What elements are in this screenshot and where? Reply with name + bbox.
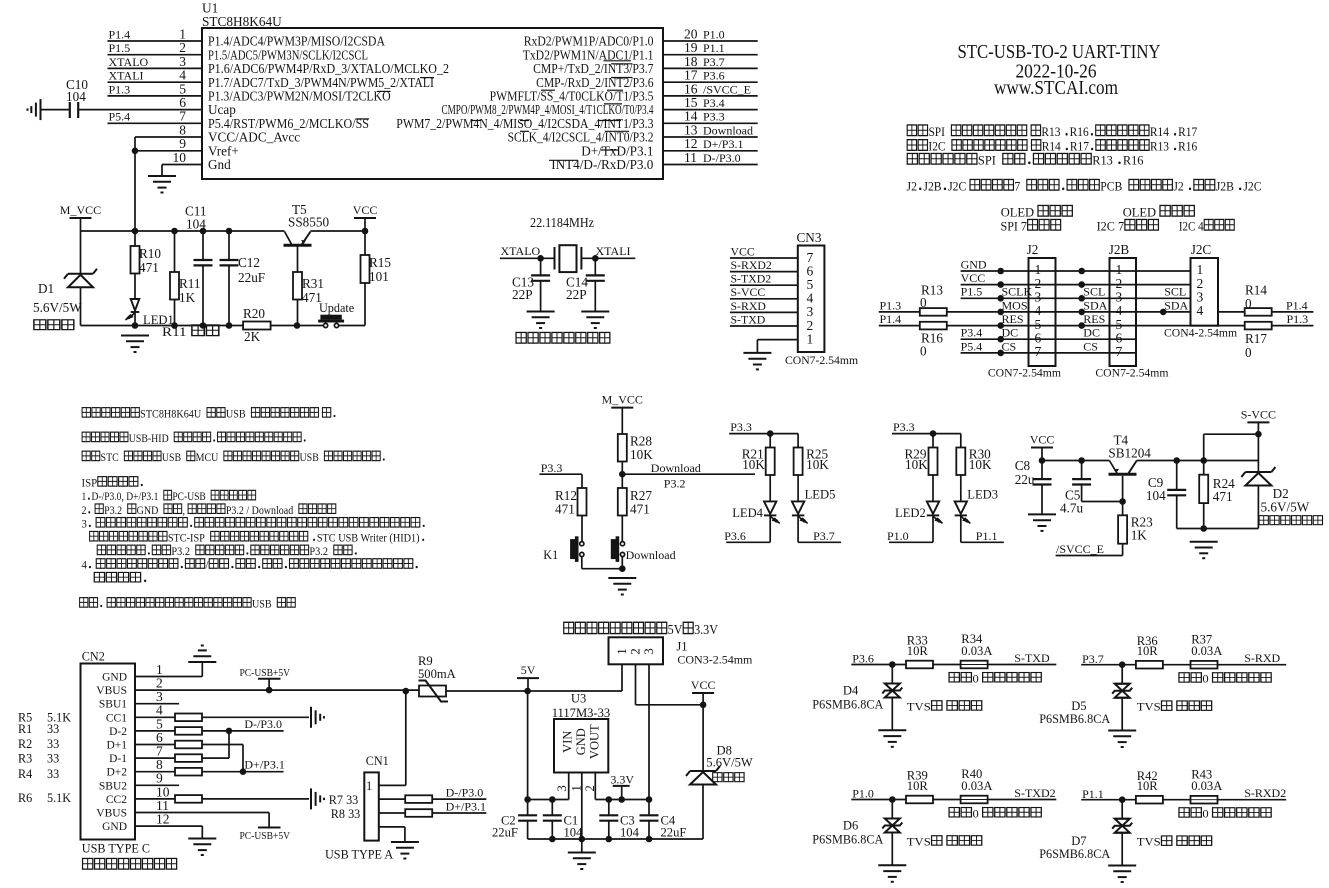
wire P3.6	[851, 664, 906, 666]
svg-text:PC-USB+5V: PC-USB+5V	[240, 830, 291, 842]
wire U1 pin 20	[663, 40, 758, 42]
svg-text:U3: U3	[571, 691, 586, 705]
svg-text:S-VCC: S-VCC	[1241, 407, 1276, 421]
power PC-USB+5V bottom	[258, 827, 281, 829]
svg-text:P1.1: P1.1	[703, 41, 725, 55]
svg-text:1K: 1K	[1131, 528, 1148, 543]
svg-text:P6SMB6.8CA: P6SMB6.8CA	[812, 698, 883, 712]
svg-text:J2C: J2C	[1191, 242, 1212, 257]
svg-text:CMP+/TxD_2/INT3/P3.7: CMP+/TxD_2/INT3/P3.7	[533, 61, 654, 76]
ground download	[608, 578, 636, 595]
pushbutton K1	[570, 536, 584, 562]
svg-text:10K: 10K	[969, 457, 992, 472]
svg-text:3: 3	[82, 518, 88, 530]
svg-text:J2B: J2B	[1216, 179, 1234, 194]
wire D-2 + resistor R1	[135, 730, 284, 732]
svg-text:1117M3-33: 1117M3-33	[552, 706, 611, 720]
wire J2 pin 2	[961, 284, 1191, 286]
junction J2 pin 2	[997, 281, 1004, 288]
wire T4 collector	[1137, 460, 1259, 462]
svg-text:3.3V: 3.3V	[694, 621, 718, 637]
resistor R27	[621, 474, 623, 488]
svg-text:D-/P3.0: D-/P3.0	[244, 717, 282, 731]
wire CC2 + resistor R6	[135, 798, 309, 800]
svg-text:VCC/ADC_Avcc: VCC/ADC_Avcc	[208, 130, 300, 145]
svg-text:CS: CS	[1002, 339, 1017, 353]
wire LED down	[932, 516, 934, 542]
capacitor C1	[551, 800, 553, 816]
note TVS	[907, 700, 982, 713]
svg-text:R14: R14	[1042, 139, 1061, 154]
wire P1.1	[1081, 799, 1136, 801]
wire VCC segment	[311, 230, 366, 232]
wire LED down	[797, 516, 799, 542]
svg-text:STC8H8K64U: STC8H8K64U	[140, 408, 201, 421]
svg-text:SBU1: SBU1	[99, 699, 127, 711]
svg-text:,: ,	[182, 504, 185, 517]
svg-text:SDA: SDA	[1083, 298, 1107, 312]
svg-text:GND: GND	[102, 821, 127, 833]
ground D6	[878, 865, 906, 882]
wire U1 pin 16	[663, 95, 758, 97]
wire CN1 pin1	[405, 691, 407, 785]
pushbutton Download	[611, 536, 625, 562]
svg-text:USB: USB	[226, 408, 246, 421]
svg-text:104: 104	[1146, 488, 1166, 503]
svg-text:TVS: TVS	[907, 700, 931, 713]
wire U1 pin 12	[663, 150, 758, 152]
svg-text:R11: R11	[162, 325, 187, 340]
wire P3.3 to R12	[539, 473, 582, 475]
wire right branch	[960, 434, 962, 448]
note I2C	[907, 139, 1197, 154]
ground C13	[527, 312, 555, 329]
svg-text:0: 0	[920, 344, 927, 359]
label SPI if	[1001, 219, 1061, 234]
svg-text:P3.7: P3.7	[813, 529, 835, 543]
note J2	[907, 179, 1262, 194]
junction C1 node	[549, 796, 556, 803]
svg-text:R20: R20	[243, 306, 265, 321]
note TVS	[907, 835, 982, 848]
svg-text:RES: RES	[1002, 312, 1024, 326]
note 0ohm	[949, 672, 1041, 685]
wire CN3 pin 2	[730, 325, 798, 327]
wire U1 pin 13	[663, 136, 758, 138]
ground CN3	[743, 353, 771, 370]
pushbutton Update	[318, 315, 344, 328]
svg-text:33: 33	[47, 722, 59, 736]
LED3	[955, 501, 967, 515]
svg-text:XTALI: XTALI	[596, 244, 631, 258]
zener D8	[702, 705, 704, 771]
resistor R29	[929, 448, 938, 476]
svg-text:D4: D4	[843, 684, 859, 698]
svg-text:P3.2: P3.2	[104, 504, 122, 517]
junction D4	[889, 661, 896, 668]
svg-text:CON4-2.54mm: CON4-2.54mm	[1164, 327, 1237, 340]
resistor R12	[578, 488, 587, 516]
junction PC-USB+5V	[266, 687, 273, 694]
wire VBUS2 down	[135, 812, 269, 814]
svg-text:J2C: J2C	[948, 179, 966, 194]
svg-text:R17: R17	[1245, 331, 1267, 346]
wire CC1 + resistor R5	[135, 716, 309, 718]
junction 3.3V	[618, 796, 625, 803]
svg-text:5.6V/5W: 5.6V/5W	[706, 756, 753, 770]
wire J1 pin3 down	[648, 664, 650, 799]
power PC-USB+5V top	[258, 678, 281, 680]
svg-text:P3.7: P3.7	[703, 55, 725, 69]
svg-text:471: 471	[555, 502, 575, 517]
ISP instruction text block	[82, 408, 335, 421]
svg-text:PC-USB: PC-USB	[172, 491, 205, 503]
junction rail	[606, 836, 613, 843]
wire Download net	[622, 473, 755, 475]
LED4	[764, 501, 776, 515]
wire U1 pin 3	[108, 67, 203, 69]
junction XTALI	[592, 255, 599, 262]
junction D-	[226, 728, 233, 735]
svg-text:P5.4: P5.4	[109, 110, 131, 124]
connector CN3	[798, 246, 825, 353]
label OLED SPI	[1001, 205, 1073, 219]
regulator U3 1117M3-33	[554, 719, 608, 773]
svg-text:R3: R3	[18, 752, 32, 766]
svg-text:K1: K1	[543, 548, 558, 562]
svg-text:VCC: VCC	[691, 678, 716, 692]
junction J2 pin 1	[997, 268, 1004, 275]
wire to P3.6	[726, 541, 770, 543]
ground D5	[1108, 731, 1136, 748]
svg-text:10K: 10K	[630, 447, 653, 462]
svg-text:471: 471	[139, 260, 159, 275]
svg-text:XTALI: XTALI	[109, 69, 144, 83]
svg-text:104: 104	[564, 826, 584, 840]
svg-text:2K: 2K	[244, 329, 261, 344]
resistor R39	[906, 796, 933, 804]
junction J2 pin 6	[997, 336, 1004, 343]
junction SDA	[1160, 309, 1167, 316]
capacitor C8	[1041, 461, 1043, 480]
junction J2B pin 1	[1078, 268, 1085, 275]
svg-text:GND: GND	[137, 504, 159, 517]
svg-text:104: 104	[66, 89, 86, 104]
svg-text:GND: GND	[574, 728, 588, 755]
svg-text:Download: Download	[651, 461, 701, 475]
wire J2 pin 1	[961, 270, 1191, 272]
junction	[930, 430, 937, 437]
svg-text:0.03A: 0.03A	[961, 644, 992, 658]
resistor R16	[920, 322, 947, 330]
svg-text:P3.6: P3.6	[703, 69, 725, 83]
capacitor C3	[608, 800, 610, 816]
junction bottom x=135	[132, 322, 139, 329]
wire D+1 + resistor R2	[135, 744, 243, 746]
svg-text:CC2: CC2	[106, 794, 127, 806]
svg-text:3: 3	[179, 54, 186, 69]
wire U1 pin 17	[663, 81, 758, 83]
wire J2 pin 5	[947, 325, 1245, 327]
junction 5V	[524, 688, 531, 695]
svg-text:104: 104	[186, 217, 206, 232]
svg-text:P1.3: P1.3	[109, 82, 131, 96]
junction C9	[1173, 457, 1180, 464]
svg-text:J1: J1	[676, 639, 687, 653]
svg-text:VBUS: VBUS	[96, 685, 127, 697]
svg-text:D-2: D-2	[109, 726, 127, 738]
svg-text:TVS: TVS	[1137, 700, 1161, 713]
svg-text:33: 33	[47, 767, 59, 781]
svg-text:1: 1	[82, 491, 87, 503]
wire mid	[933, 664, 960, 666]
junction CN1 branch	[403, 688, 410, 695]
svg-text:P3.2: P3.2	[309, 545, 328, 558]
LED2	[927, 501, 939, 515]
svg-text:33: 33	[47, 752, 59, 766]
connector CN2	[81, 664, 136, 840]
svg-text:I2C: I2C	[928, 139, 945, 154]
svg-text:10R: 10R	[907, 644, 929, 658]
ground U3	[568, 853, 596, 870]
svg-text:P6SMB6.8CA: P6SMB6.8CA	[1039, 847, 1110, 861]
svg-text:10K: 10K	[905, 457, 928, 472]
svg-text:3: 3	[641, 648, 656, 655]
wire mid	[1163, 664, 1190, 666]
svg-text:500mA: 500mA	[418, 667, 456, 681]
svg-text:J2: J2	[907, 179, 917, 194]
wire M_VCC down	[621, 408, 623, 434]
svg-text:P3.2: P3.2	[664, 477, 686, 491]
svg-text:R31: R31	[302, 276, 324, 291]
wire CN3 pin 5	[730, 284, 798, 286]
svg-text:R17: R17	[1070, 139, 1089, 154]
junction J2B pin 4	[1078, 309, 1085, 316]
svg-text:R14: R14	[1150, 124, 1169, 139]
svg-text:I2C 7: I2C 7	[1097, 219, 1125, 233]
svg-text:5V: 5V	[668, 621, 683, 637]
power 3.3V	[613, 785, 630, 787]
svg-text:471: 471	[1213, 489, 1233, 504]
connector J2B	[1110, 258, 1137, 366]
fuse R40	[961, 796, 988, 804]
resistor R36	[1136, 661, 1163, 669]
svg-text:CON3-2.54mm: CON3-2.54mm	[677, 653, 753, 667]
svg-text:SCLK: SCLK	[1002, 285, 1033, 299]
svg-text:R13: R13	[1092, 153, 1113, 167]
svg-text:CON7-2.54mm: CON7-2.54mm	[988, 367, 1061, 380]
resistor R33	[906, 661, 933, 669]
wire CN3 pin1 to ground	[757, 339, 797, 341]
svg-text:P1.0: P1.0	[887, 529, 909, 543]
ground T4 section	[1190, 542, 1218, 559]
note 0ohm	[949, 807, 1041, 820]
svg-text:P3.4: P3.4	[961, 326, 983, 340]
connector J2C	[1191, 258, 1219, 326]
svg-text:R13: R13	[1150, 139, 1169, 154]
junction rail	[646, 836, 653, 843]
svg-text:0: 0	[1202, 672, 1208, 685]
svg-text:CN2: CN2	[82, 650, 105, 664]
wire U1 pin 2	[108, 54, 203, 56]
svg-text:STC8H8K64U: STC8H8K64U	[202, 14, 282, 29]
capacitor C10	[41, 109, 70, 111]
ground LED1	[121, 336, 149, 353]
svg-text:USB: USB	[300, 451, 319, 464]
svg-text:RES: RES	[1083, 312, 1105, 326]
svg-text:D+/P3.1: D+/P3.1	[244, 758, 284, 772]
svg-text:D-/P3.0, D+/P3.1: D-/P3.0, D+/P3.1	[92, 491, 159, 503]
junction C3	[606, 796, 613, 803]
ground D4	[878, 730, 906, 747]
svg-text:XTALO: XTALO	[109, 55, 149, 69]
note TVS	[1137, 835, 1212, 848]
svg-text:0.03A: 0.03A	[1191, 779, 1222, 793]
svg-text:D6: D6	[843, 819, 858, 833]
wire S-VCC to R24	[1204, 433, 1259, 435]
svg-text:0: 0	[1202, 807, 1208, 820]
resistor R28	[618, 434, 627, 462]
wire K1 to gnd node	[582, 568, 623, 570]
junction rail x=174	[171, 228, 178, 235]
wire 5V rail to J1 pin1	[528, 690, 622, 692]
svg-text:D+2: D+2	[107, 767, 128, 779]
label I2C4	[1179, 219, 1234, 234]
svg-text:MCU: MCU	[196, 451, 219, 464]
capacitor C12	[228, 231, 230, 260]
resistor R25	[794, 448, 803, 476]
svg-text:J2: J2	[1173, 179, 1183, 194]
wire CN3 pin 4	[730, 298, 798, 300]
svg-text:D-/P3.0: D-/P3.0	[703, 151, 741, 165]
svg-text:S-TXD2: S-TXD2	[1014, 786, 1055, 800]
svg-text:R9: R9	[418, 654, 433, 668]
wire S-RXD	[1218, 664, 1287, 666]
wire right branch	[797, 434, 799, 448]
svg-text:SPI: SPI	[978, 153, 996, 167]
svg-text:22uF: 22uF	[492, 826, 518, 840]
svg-text:ISP: ISP	[82, 477, 98, 489]
power VCC T4	[1031, 447, 1053, 449]
svg-text:D5: D5	[1071, 699, 1086, 713]
TVS diode D6	[891, 800, 893, 819]
wire U1 pin 11	[663, 164, 758, 166]
note CN2	[83, 858, 177, 869]
svg-text:P3.2 / Download: P3.2 / Download	[226, 504, 294, 517]
svg-text:R2: R2	[18, 737, 32, 751]
junction C8	[1039, 457, 1046, 464]
svg-text:P3.3: P3.3	[730, 420, 752, 434]
wire D-1 + resistor R3	[135, 757, 229, 759]
svg-text:101: 101	[369, 269, 389, 284]
power 5V	[517, 677, 539, 679]
junction J2 pin 4	[997, 309, 1004, 316]
svg-text:I2C 4: I2C 4	[1179, 219, 1204, 234]
svg-text:P1.5: P1.5	[109, 41, 131, 55]
svg-text:S-RXD2: S-RXD2	[1244, 786, 1286, 800]
junction	[767, 430, 774, 437]
svg-text:VCC: VCC	[353, 203, 378, 217]
svg-text:P3.4: P3.4	[703, 96, 725, 110]
svg-text:471: 471	[630, 502, 650, 517]
svg-text:VBUS: VBUS	[96, 808, 127, 820]
svg-text:R7 33: R7 33	[329, 793, 358, 807]
svg-text:Download: Download	[626, 548, 676, 562]
wire J2 pin 3	[961, 297, 1191, 299]
svg-text:LED4: LED4	[732, 506, 763, 520]
junction J2B pin 3	[1078, 295, 1085, 302]
power VCC	[354, 217, 376, 219]
svg-text:R16: R16	[1070, 124, 1089, 139]
junction S-VCC	[1255, 431, 1262, 438]
wire CN2 pin1 gnd	[135, 676, 202, 678]
wire P3.7	[1081, 664, 1136, 666]
svg-text:USB TYPE A: USB TYPE A	[325, 848, 393, 862]
fuse R34	[961, 661, 988, 669]
svg-text:CON7-2.54mm: CON7-2.54mm	[1095, 367, 1168, 380]
wire to P1.0	[889, 541, 933, 543]
svg-text:J2B: J2B	[1109, 242, 1130, 257]
wire LED down	[769, 516, 771, 542]
svg-text:TVS: TVS	[1137, 835, 1161, 848]
resistor R17	[1245, 322, 1272, 330]
note R11	[162, 325, 219, 340]
wire J2 pin 6	[961, 338, 1136, 340]
svg-text:P1.6/ADC6/PWM4P/RxD_3/XTALO/MC: P1.6/ADC6/PWM4P/RxD_3/XTALO/MCLKO_2	[208, 61, 449, 76]
svg-text:0: 0	[920, 295, 927, 310]
LED1	[131, 299, 140, 312]
svg-text:MOS: MOS	[1002, 298, 1028, 312]
resistor R21	[766, 448, 775, 476]
svg-text:PCB: PCB	[1100, 179, 1122, 194]
junction J2 pin 5	[997, 322, 1004, 329]
capacitor C2	[518, 815, 537, 820]
wire P1.3 right	[1272, 325, 1314, 327]
svg-text:R15: R15	[369, 255, 391, 270]
svg-text:R11: R11	[179, 276, 201, 291]
label OLED I2C	[1123, 205, 1195, 219]
svg-text:CS: CS	[1083, 339, 1098, 353]
svg-text:Update: Update	[319, 301, 354, 315]
wire bottom T4 section	[1177, 528, 1259, 530]
zener D1	[80, 231, 82, 274]
capacitor C14	[594, 258, 596, 275]
svg-text:J2: J2	[1027, 242, 1039, 257]
wire VCC to T4	[1042, 460, 1109, 462]
wire U1 pin 6	[78, 109, 202, 111]
wire CN3 pin 3	[730, 311, 798, 313]
svg-text:D-/P3.0: D-/P3.0	[446, 786, 484, 800]
svg-text:USB TYPE C: USB TYPE C	[82, 842, 150, 856]
ground D7	[1108, 866, 1136, 883]
svg-text:P3.7: P3.7	[1082, 652, 1104, 666]
power VCC J1	[692, 692, 714, 694]
svg-text:0.03A: 0.03A	[961, 779, 992, 793]
junction bottom x=174	[171, 322, 178, 329]
wire U3 VOUT	[594, 773, 596, 800]
svg-text:S-VCC: S-VCC	[731, 285, 766, 299]
svg-text:J2C: J2C	[1243, 179, 1261, 194]
note default	[907, 153, 1143, 167]
svg-text:P3.3: P3.3	[703, 110, 725, 124]
svg-text:P1.3: P1.3	[880, 298, 902, 312]
svg-text:USB: USB	[252, 598, 272, 611]
note 0ohm	[1179, 672, 1271, 685]
svg-text:SCL: SCL	[1164, 285, 1186, 299]
svg-text:22P: 22P	[566, 287, 587, 302]
wire SBU1 stub	[135, 703, 179, 705]
wire U1 Gnd pin 10	[162, 164, 202, 166]
